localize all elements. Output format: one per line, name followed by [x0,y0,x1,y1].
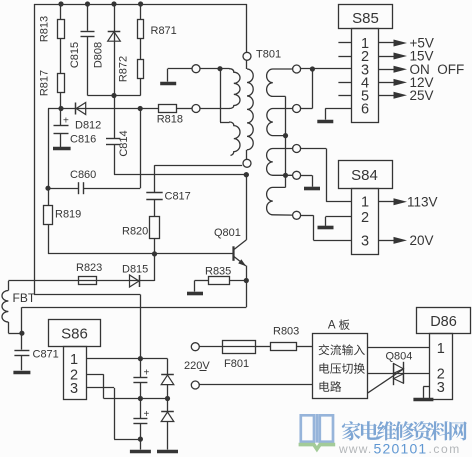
svg-text:+: + [63,116,69,127]
svg-text:6: 6 [361,102,369,118]
svg-text:R823: R823 [76,262,102,274]
svg-text:3: 3 [437,380,445,396]
svg-text:R817: R817 [39,70,51,96]
svg-text:C871: C871 [33,349,59,361]
svg-text:T801: T801 [256,49,281,61]
svg-text:C860: C860 [70,169,96,181]
svg-text:3: 3 [361,234,369,250]
svg-text:S86: S86 [61,326,88,343]
svg-text:R813: R813 [39,16,51,42]
svg-text:A: A [328,319,336,331]
svg-text:C814: C814 [118,130,130,156]
svg-text:R871: R871 [151,25,177,37]
svg-text:.com: .com [429,442,461,456]
svg-text:Q801: Q801 [214,227,241,239]
svg-text:www.: www. [338,442,372,456]
svg-text:20V: 20V [410,233,434,248]
svg-text:1: 1 [361,195,369,211]
svg-text:D86: D86 [430,314,457,330]
svg-text:R819: R819 [55,209,81,221]
svg-text:1: 1 [437,341,445,357]
svg-text:25V: 25V [410,88,434,103]
svg-text:R835: R835 [205,265,231,277]
svg-text:S84: S84 [351,167,378,184]
svg-text:1: 1 [70,352,78,368]
svg-text:D815: D815 [122,264,148,276]
svg-text:Q804: Q804 [386,351,413,363]
svg-text:F801: F801 [224,358,249,370]
svg-text:3: 3 [70,381,78,397]
svg-text:R872: R872 [118,56,130,82]
svg-text:C816: C816 [70,133,96,145]
svg-text:R818: R818 [157,113,183,125]
svg-text:C817: C817 [165,191,191,203]
svg-text:D808: D808 [93,42,105,68]
svg-text:S85: S85 [352,10,379,27]
svg-text:2: 2 [361,210,369,226]
svg-text:+: + [144,367,150,378]
svg-text:R820: R820 [122,225,148,237]
svg-text:C815: C815 [69,42,81,68]
svg-text:D812: D812 [75,120,101,132]
svg-text:113V: 113V [407,194,438,209]
svg-text:R803: R803 [273,325,299,337]
svg-text:+: + [144,409,150,420]
svg-text:520101: 520101 [374,441,428,457]
svg-text:FBT: FBT [13,291,36,305]
